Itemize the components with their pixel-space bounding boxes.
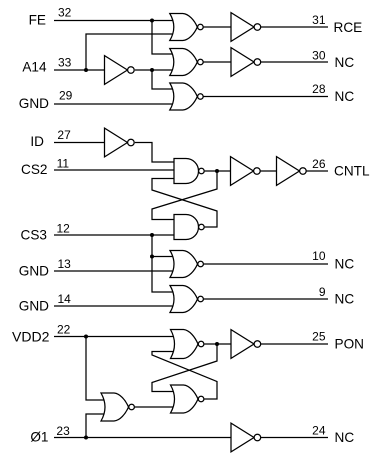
svg-text:32: 32: [58, 6, 72, 20]
svg-text:PON: PON: [335, 337, 364, 352]
svg-text:Ø1: Ø1: [30, 429, 48, 444]
inverter U8 (PON): [231, 330, 261, 359]
wire A14 branch to NOR1 input 2: [86, 34, 174, 70]
wire NOR5 output to pin 9 NC: [204, 298, 328, 300]
junction U2 output node: [150, 68, 154, 72]
svg-text:VDD2: VDD2: [12, 330, 49, 345]
wire GND pin29 to NOR3 input 2: [54, 103, 174, 105]
NOR gate G7 (GND14): [170, 286, 203, 313]
junction VDD2 node: [84, 335, 88, 339]
wire U8 output to pin 25 PON: [261, 343, 329, 345]
wire NOR4 output to pin 10 NC: [204, 263, 328, 265]
wire NOR7 output cross-couple to NOR8 input 1: [152, 344, 217, 392]
NOR gate G3: [170, 83, 203, 110]
inverter U4: [231, 48, 261, 77]
wire NAND2 output cross-couple to NAND1 input 3: [152, 179, 217, 228]
wire phi1 branch to NOR6 input 2: [86, 414, 106, 438]
svg-text:CNTL: CNTL: [334, 164, 370, 179]
svg-text:31: 31: [312, 13, 326, 27]
svg-text:GND: GND: [19, 299, 49, 314]
svg-text:NC: NC: [335, 291, 355, 306]
junction A14 node: [84, 68, 88, 72]
wire U2 output branch to NOR3 input 1: [152, 70, 174, 89]
wire GND pin13 to NOR4 input 2: [54, 270, 175, 272]
svg-text:NC: NC: [335, 257, 355, 272]
inverter U6: [231, 157, 261, 186]
inverter U2 (A14): [105, 56, 135, 85]
NOR gate G8 (latch2 top): [171, 330, 204, 359]
wire NOR6 output to NOR8 input 2: [135, 406, 176, 408]
wire VDD2 branch to NOR6 input 1: [86, 337, 106, 401]
NOR gate G1 (FE/A14): [170, 14, 203, 41]
wire U9 output to pin 24 NC: [261, 437, 329, 439]
svg-text:NC: NC: [335, 430, 355, 445]
NOR gate G6 (GND13): [170, 251, 203, 278]
wire ID to inverter U5 input: [54, 142, 105, 144]
inverter U3 (RCE): [231, 13, 261, 42]
svg-text:33: 33: [58, 55, 72, 69]
wire NOR2 output to inverter U4: [203, 61, 231, 63]
wire CS3 branch to NOR5 input 1: [152, 235, 175, 292]
svg-text:RCE: RCE: [334, 20, 363, 35]
svg-text:FE: FE: [29, 12, 46, 27]
svg-text:29: 29: [59, 88, 73, 102]
wire NAND1 output cross-couple to NAND2 input 1: [152, 171, 217, 220]
svg-text:28: 28: [312, 82, 326, 96]
svg-text:27: 27: [57, 128, 71, 142]
NOR gate G9 (latch2 bottom): [171, 385, 204, 413]
svg-text:25: 25: [312, 330, 326, 344]
wire NOR1 output to inverter U3: [203, 26, 231, 28]
svg-text:13: 13: [58, 257, 72, 271]
NOR gate G2: [170, 49, 203, 76]
svg-text:26: 26: [312, 157, 326, 171]
svg-text:30: 30: [312, 48, 326, 62]
wire NOR3 output to pin 28 NC: [203, 96, 328, 98]
wire U5 output to NAND1 input 1: [135, 143, 175, 163]
inverter U9 (NC24): [231, 423, 261, 452]
svg-text:A14: A14: [22, 60, 47, 75]
svg-text:GND: GND: [19, 264, 49, 279]
wire A14 to inverter U2 input: [54, 69, 105, 71]
NOR gate G10 (VDD2/phi1): [101, 393, 134, 421]
svg-text:CS3: CS3: [21, 228, 47, 243]
junction phi1 node: [84, 436, 88, 440]
wire NOR8 output cross-couple to NOR7 input 2: [152, 352, 217, 400]
wire CS3 branch to NOR4 input 1: [152, 256, 175, 258]
wire U2 output to NOR2 input 2: [135, 69, 174, 71]
wire U4 output to pin 30 NC: [261, 61, 329, 63]
inverter U7 (CNTL): [277, 157, 307, 186]
wire CS3 to NAND2 input 2: [54, 234, 175, 236]
junction CS3 node: [150, 233, 154, 237]
wire NOR7 output to inverter U8: [204, 343, 231, 345]
svg-text:23: 23: [56, 424, 70, 438]
wire U6 output to inverter U7: [260, 170, 277, 172]
wire GND pin14 to NOR5 input 2: [54, 305, 175, 307]
inverter U5 (ID): [105, 128, 135, 157]
svg-text:GND: GND: [19, 96, 49, 111]
svg-text:NC: NC: [335, 55, 355, 70]
svg-text:22: 22: [57, 323, 71, 337]
wire NAND1 output to inverter U6: [205, 170, 231, 172]
junction NAND1 output node: [215, 169, 219, 173]
svg-text:12: 12: [57, 221, 71, 235]
svg-text:14: 14: [58, 292, 72, 306]
wire CS2 to NAND1 input 2: [54, 169, 175, 171]
wire FE branch to NOR2 input 1: [152, 21, 174, 55]
NAND gate G4 (latch top): [174, 159, 204, 184]
NAND gate G5 (latch bottom): [174, 215, 204, 240]
wire phi1 to inverter U9 input: [54, 437, 231, 439]
wire U3 output to pin 31 RCE: [261, 26, 329, 28]
svg-text:9: 9: [319, 285, 326, 299]
junction FE node: [150, 19, 154, 23]
svg-text:24: 24: [312, 424, 326, 438]
wire FE to NOR1 input 1: [54, 20, 174, 22]
svg-text:ID: ID: [30, 134, 44, 149]
svg-text:10: 10: [312, 249, 326, 263]
junction NOR7 output node: [215, 342, 219, 346]
wire VDD2 to NOR7 input 1: [54, 336, 176, 338]
wire U7 output to pin 26 CNTL: [306, 170, 328, 172]
svg-text:NC: NC: [335, 89, 355, 104]
junction CS3 branch node: [150, 255, 154, 259]
svg-text:CS2: CS2: [21, 162, 47, 177]
svg-text:11: 11: [57, 157, 70, 171]
